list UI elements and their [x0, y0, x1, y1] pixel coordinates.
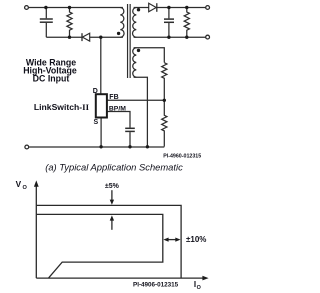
- wire source: [100, 118, 102, 148]
- diode D1 (clamp, cathode left): [82, 33, 89, 41]
- wire top input rail: [29, 7, 123, 9]
- input terminal +: [25, 6, 29, 10]
- arrowhead left 10%: [163, 238, 168, 242]
- svg-text:DC Input: DC Input: [33, 74, 70, 84]
- wire FB: [107, 99, 164, 101]
- transformer core: [127, 4, 129, 78]
- svg-text:S: S: [93, 119, 98, 126]
- transformer bias winding: [133, 48, 137, 77]
- svg-text:FB: FB: [109, 94, 118, 101]
- svg-text:O: O: [197, 285, 201, 291]
- node bias return junction: [146, 145, 149, 148]
- wire diode to primary: [90, 36, 123, 38]
- arrow up 5%: [111, 219, 113, 229]
- wire secondary to output diode: [134, 7, 149, 9]
- node FB junction: [163, 99, 166, 102]
- output terminal +: [206, 6, 210, 10]
- resistor R4 (feedback lower): [162, 100, 167, 146]
- transformer T1 primary winding: [120, 8, 124, 38]
- resistor R3 (feedback upper): [162, 63, 167, 101]
- arrowhead right 10%: [175, 238, 180, 242]
- wire bias bottom return: [134, 77, 148, 147]
- wire output top rail: [157, 7, 206, 9]
- arrowhead down: [110, 200, 114, 205]
- node output rail C2: [167, 6, 170, 9]
- node bias polarity dot: [137, 49, 140, 52]
- svg-text:PI-4906-012315: PI-4906-012315: [133, 281, 179, 288]
- wire clamp bottom: [46, 36, 82, 38]
- svg-text:(a) Typical Application Schema: (a) Typical Application Schematic: [45, 162, 183, 173]
- svg-text:V: V: [16, 180, 22, 189]
- node clamp bottom R1: [68, 36, 71, 39]
- arrowhead up: [110, 215, 114, 220]
- arrow 10% span: [165, 239, 179, 241]
- op IC U1 LinkSwitch-II: [96, 94, 107, 117]
- resistor R2 (output load): [184, 8, 189, 38]
- svg-text:O: O: [23, 185, 28, 191]
- x axis: [36, 277, 204, 279]
- node output bottom R2: [185, 36, 188, 39]
- node bypass junction: [128, 145, 131, 148]
- diode D2 (output rectifier): [149, 3, 157, 12]
- node top rail R1: [68, 6, 71, 9]
- wire drain: [100, 37, 102, 94]
- node drain junction: [99, 36, 102, 39]
- svg-text:BP/M: BP/M: [109, 105, 126, 112]
- wire output bottom rail: [134, 36, 206, 38]
- node top rail C1: [44, 6, 47, 9]
- svg-text:PI-4960-012315: PI-4960-012315: [163, 153, 201, 159]
- y axis: [35, 185, 37, 278]
- wire BP/M to capacitor: [107, 112, 130, 128]
- node source junction: [99, 145, 102, 148]
- graph: [36, 185, 204, 278]
- capacitor C1 (clamp): [45, 8, 47, 19]
- x axis arrowhead: [202, 276, 208, 281]
- node secondary polarity dot: [137, 8, 140, 11]
- node output bottom C2: [167, 36, 170, 39]
- y axis arrowhead: [34, 180, 39, 186]
- output terminal -: [206, 35, 210, 39]
- wire bottom return rail: [29, 146, 164, 148]
- capacitor C3 (bypass): [125, 127, 135, 129]
- capacitor C2 (output): [168, 8, 170, 19]
- svg-text:LinkSwitch-II: LinkSwitch-II: [34, 102, 90, 112]
- svg-text:±5%: ±5%: [105, 183, 120, 190]
- wire bias top to divider: [134, 48, 165, 63]
- resistor R1 (clamp): [67, 8, 72, 38]
- transformer secondary winding: [133, 8, 137, 38]
- envelope inner: [36, 214, 163, 278]
- svg-text:±10%: ±10%: [186, 235, 206, 244]
- svg-text:D: D: [93, 88, 98, 95]
- input terminal -: [25, 145, 29, 149]
- envelope outer top: [36, 205, 181, 278]
- node output rail R2: [185, 6, 188, 9]
- node primary polarity dot: [117, 32, 120, 35]
- arrow down 5%: [111, 190, 113, 200]
